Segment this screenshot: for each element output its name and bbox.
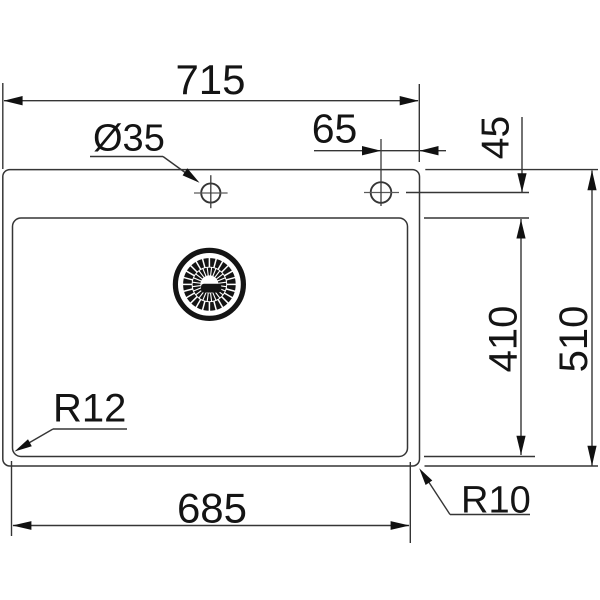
svg-text:65: 65 [312,106,358,152]
label R12 underline [53,428,127,430]
top edge extension line right [425,169,598,171]
dimension 510 arrow up [587,170,596,190]
dimension 65 arrow right [420,146,439,155]
svg-text:715: 715 [175,56,245,103]
dimension 715 arrow right [400,96,419,105]
svg-text:410: 410 [482,306,526,373]
dimension 715 extension line right [418,84,420,162]
svg-text:Ø35: Ø35 [93,118,165,160]
svg-text:685: 685 [177,485,247,532]
dimension 65 line [314,150,381,152]
drain outer ring [175,250,243,318]
dimension 45 down arrow [517,173,526,192]
label R10 underline [450,514,530,516]
dimension 510 line [591,171,593,466]
drain strainer inner slits [192,267,226,301]
label R10 leader [425,476,451,515]
drain strainer outer slits [183,258,237,312]
label R10 leader arrowhead [419,468,432,485]
drain centre bar [201,284,221,293]
dimension 510 arrow down [587,446,596,466]
dimension 685 arrow right [391,521,410,530]
label R12 leader arrowhead [15,439,32,451]
sink outer outline [3,170,420,466]
dimension 715 arrow left [4,96,23,105]
svg-text:510: 510 [552,306,596,373]
dimension 685 line [13,525,409,527]
dimension 715 extension line left [2,83,4,169]
dimension 410 arrow down [516,436,525,455]
svg-text:R12: R12 [53,387,126,431]
dimension 685 arrow left [12,521,31,530]
dimension 65 tail right [420,150,447,152]
dimension 65 arrow left [362,146,381,155]
dimension 685 extension right [409,462,411,543]
faucet hole 1 [201,183,220,202]
faucet hole 1 crosshair vertical [210,175,212,208]
drain assembly [175,250,243,318]
dimension 715 line [4,100,418,102]
drain strainer annulus [192,267,227,302]
dimension 410 arrow up [516,220,525,239]
faucet hole 2 crosshair horizontal [364,192,399,194]
inner bottom extension line right [424,456,535,458]
drain split ring [192,267,227,302]
faucet hole 2 crosshair vertical [380,139,382,206]
dimension 410 line [520,219,522,455]
label O35 leader [163,157,192,178]
faucet hole 1 crosshair horizontal [194,192,228,194]
faucet hole 2 [371,182,392,203]
label O35 underline [90,156,163,158]
hole2 centre extension line right [406,192,529,194]
label R12 leader [21,429,53,448]
inner top extension line right [424,217,529,219]
outer bottom extension line right [425,465,599,467]
dimension 45 line [521,117,523,193]
label O35 leader arrowhead [183,168,200,183]
sink bowl inner outline [13,218,408,457]
dimension 685 extension left [11,461,13,536]
svg-text:45: 45 [475,116,518,159]
